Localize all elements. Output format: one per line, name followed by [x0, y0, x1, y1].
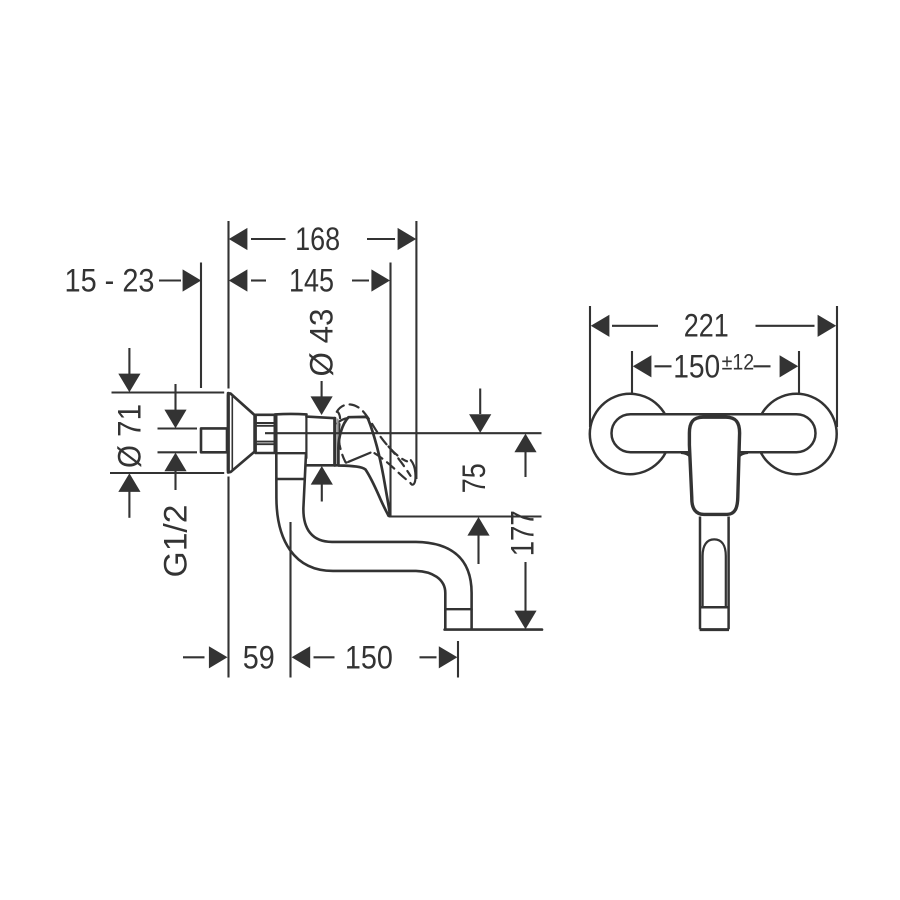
150 dimension line right segment: [420, 656, 437, 658]
mounting axis reference line: [265, 432, 542, 434]
221 dimension line right segment: [756, 325, 815, 327]
extension line 150+-12 right: [798, 351, 800, 395]
raised lever lower edge long dash segment: [349, 453, 371, 462]
svg-text:145: 145: [289, 263, 334, 299]
145 dimension line left segment: [251, 279, 266, 281]
145 dimension line right segment: [352, 279, 369, 281]
lever tail joint line, front view: [700, 606, 729, 609]
svg-text:150: 150: [345, 639, 393, 675]
arrowhead 168 right: [398, 228, 417, 250]
arrowhead 145 left: [229, 269, 248, 291]
connection nut thread lines: [256, 423, 274, 444]
extension line at closed lever tip (145 right bound): [389, 263, 391, 517]
O43 upper arrow shaft: [321, 381, 323, 398]
75 lower arrow shaft: [477, 536, 479, 565]
right escutcheon circle: [756, 394, 836, 474]
dimension line O71 top: [112, 391, 225, 393]
raised lever outline (dashed), cap and upper edge: [337, 404, 407, 461]
lever tail inner arch, front view: [703, 539, 726, 607]
escutcheon cone outline: [228, 393, 255, 472]
cartridge housing right thick edge: [333, 418, 336, 465]
spout tube joint line 2: [277, 478, 305, 480]
extension line 150+-12 left: [631, 351, 633, 395]
aerator joint line: [445, 608, 471, 610]
arrowhead O71 down: [118, 374, 140, 393]
svg-text:59: 59: [243, 639, 275, 675]
bar-to-grip fillet left: [681, 453, 690, 457]
svg-text:177: 177: [505, 510, 541, 556]
arrowhead 221 right: [818, 315, 837, 337]
G1/2 lower arrow shaft: [174, 470, 176, 491]
svg-text:168: 168: [295, 221, 340, 257]
connection nut body: [256, 415, 275, 453]
75 upper arrow shaft: [479, 389, 481, 415]
extension line at escutcheon wall face lower (59): [227, 477, 229, 678]
bar-to-grip fillet right: [739, 453, 748, 457]
square wall union nipple G1/2: [201, 428, 227, 452]
left escutcheon circle: [590, 394, 670, 474]
arrowhead 150+-12 right: [780, 355, 799, 377]
lever tail bottom edge, front view: [700, 628, 729, 631]
dimension line O71 bottom: [110, 472, 224, 474]
arrowhead G1/2 down: [164, 410, 186, 429]
svg-text:150: 150: [673, 348, 720, 384]
221 dimension line left segment: [612, 325, 658, 327]
G1/2 upper arrow shaft: [174, 384, 176, 410]
escutcheon rim thick wall-side edge: [227, 393, 230, 472]
svg-text:±12: ±12: [722, 350, 755, 375]
arrowhead 177 up: [514, 434, 536, 453]
cartridge dome arc: [337, 418, 348, 424]
arrowhead 75 down: [469, 414, 491, 433]
arrowhead 145 right: [371, 269, 390, 291]
150+-12 dimension line left segment: [655, 365, 672, 367]
75 lower reference line (lever tip level): [390, 515, 542, 517]
arrowhead 221 left: [591, 315, 610, 337]
arrowhead O43 up: [311, 466, 333, 485]
arrowhead 150 right: [439, 646, 458, 668]
body cross bar: [612, 414, 816, 452]
arrowhead O43 down: [311, 396, 333, 415]
lever grip, front view: [689, 417, 739, 514]
150 dimension line left segment: [314, 656, 335, 658]
168 dimension line left segment: [251, 238, 286, 240]
59 arrow shaft: [183, 656, 205, 658]
escutcheon rim inner line: [231, 395, 233, 471]
dimension line G1/2 bottom: [158, 451, 198, 453]
extension line at escutcheon wall face upper (168/145/15-23/59): [227, 221, 229, 389]
svg-text:Ø 71: Ø 71: [111, 404, 147, 468]
cartridge housing top edge: [307, 417, 336, 419]
grey joint line at cartridge cover: [337, 420, 339, 465]
extension line 221 left: [589, 306, 591, 427]
O71 lower arrow shaft: [128, 491, 130, 518]
svg-text:G1/2: G1/2: [158, 505, 194, 578]
valve body / cartridge housing divider: [305, 415, 307, 458]
arrowhead 15-23 right-pointing: [183, 269, 202, 291]
arrowhead 59 right-pointing: [209, 646, 228, 668]
extension line at spout riser centre (59/150 bound): [289, 522, 291, 678]
solid lever handle (closed position): [338, 417, 389, 516]
arrowhead 75 up: [467, 517, 489, 536]
extension line at raised lever tip (168 right bound): [415, 221, 417, 479]
dimension line G1/2 top: [158, 427, 198, 429]
cartridge housing bottom edge: [307, 464, 339, 467]
177 lower arrow shaft: [524, 562, 526, 611]
svg-text:15 - 23: 15 - 23: [65, 263, 155, 299]
spout tube outer wall: [276, 416, 445, 629]
raised lever tail tip hook: [410, 460, 415, 484]
raised lever lower edge (dashed): [375, 453, 407, 480]
168 dimension line right segment: [367, 238, 395, 240]
spout tube joint line 1: [276, 452, 306, 454]
raised lever inner edge (dashed): [389, 447, 411, 476]
arrowhead 150 left: [292, 646, 311, 668]
extension line 221 right: [836, 306, 838, 427]
177 upper arrow shaft: [524, 452, 526, 478]
raised lever left edge (dashed): [337, 411, 347, 462]
O43 lower arrow shaft: [321, 483, 323, 502]
spout outlet bottom edge and 177 reference line: [445, 628, 542, 631]
spout tube inner wall: [303, 454, 471, 629]
arrowhead 150+-12 left: [633, 355, 652, 377]
arrowhead G1/2 up: [164, 453, 186, 472]
svg-text:221: 221: [684, 307, 729, 343]
svg-text:75: 75: [456, 463, 492, 493]
lever tail outer edges, front view: [700, 517, 729, 630]
extension line at wall nipple tip (15-23 left bound): [200, 263, 202, 389]
arrowhead 168 left: [229, 228, 248, 250]
arrowhead 177 down: [514, 611, 536, 630]
arrowhead O71 up: [118, 473, 140, 492]
extension line at spout outlet centre (150 right bound): [457, 641, 459, 678]
svg-text:Ø 43: Ø 43: [304, 309, 340, 377]
valve body block top edge: [275, 413, 307, 416]
15-23 arrow shaft: [159, 279, 181, 281]
150+-12 dimension line right segment: [754, 365, 771, 367]
O71 upper arrow shaft: [128, 348, 130, 376]
